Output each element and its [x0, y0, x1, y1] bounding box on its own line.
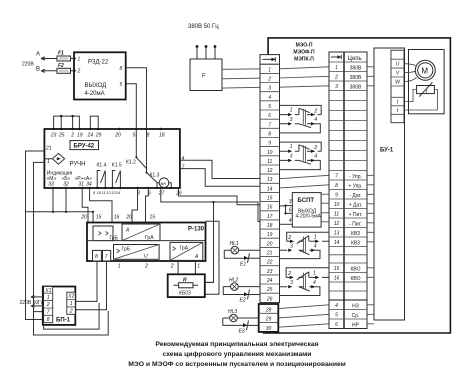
svg-text:КВО: КВО [351, 276, 361, 282]
svg-text:ГрА: ГрА [145, 235, 154, 241]
svg-text:2: 2 [313, 145, 317, 151]
svg-text:30: 30 [266, 326, 272, 332]
svg-text:17: 17 [267, 214, 273, 220]
svg-text:23: 23 [50, 133, 57, 139]
svg-text:1: 1 [268, 67, 271, 73]
svg-text:22: 22 [266, 260, 273, 266]
wire RZD pin8 to BRU pin8 [126, 68, 147, 129]
svg-text:РЗД-22: РЗД-22 [88, 60, 109, 66]
svg-text:1: 1 [78, 56, 81, 62]
svg-text:A: A [36, 52, 40, 58]
svg-text:2: 2 [70, 133, 74, 139]
fuse F2 [57, 63, 74, 73]
svg-text:19: 19 [77, 133, 83, 139]
BRU-42 name plate [70, 141, 99, 150]
svg-text:К1.5: К1.5 [112, 163, 122, 169]
svg-text:10: 10 [334, 202, 340, 208]
svg-text:380В: 380В [350, 84, 362, 90]
fuse block F [190, 59, 222, 91]
svg-text:33: 33 [48, 181, 54, 187]
circuit table row lines [329, 62, 367, 319]
arrester E2 [223, 287, 260, 304]
svg-text:29: 29 [265, 317, 272, 323]
svg-text:Рекомендуемая принципиальная э: Рекомендуемая принципиальная электрическ… [155, 341, 318, 348]
wire BRU pin21 common bus down-left [26, 151, 94, 320]
R-130 input switch box GrB [93, 226, 119, 242]
arrester E1 [224, 250, 260, 267]
wire strip row2 to circuit row2 [280, 76, 330, 78]
limit switch group SQ1 terminals 5-8 [280, 105, 322, 132]
wire F to strip row1 [222, 68, 260, 70]
wire F to strip row3 [222, 86, 260, 89]
svg-text:- Упр.: - Упр. [349, 174, 362, 180]
circuit table signal names [348, 65, 362, 328]
R-130 lower-left terminal 7 [103, 250, 111, 261]
wire BSPT to circuit row9 Dat [321, 193, 329, 195]
svg-text:МЭО-П: МЭО-П [296, 43, 313, 49]
svg-text:4: 4 [182, 156, 185, 162]
svg-text:4-20/0-5мА: 4-20/0-5мА [296, 213, 322, 219]
wire BRU pin33 down to bus [52, 188, 54, 212]
motor compartment box [409, 50, 445, 114]
svg-text:4: 4 [268, 95, 271, 101]
svg-text:14: 14 [116, 190, 121, 195]
svg-text:2: 2 [334, 75, 338, 81]
R-130 lower-left terminal 8 [93, 250, 102, 261]
wire R-130 pin2 to KB03 [177, 261, 179, 274]
svg-text:БП-1: БП-1 [56, 318, 71, 324]
svg-text:4: 4 [314, 153, 317, 159]
svg-text:Ср.: Ср. [352, 313, 360, 319]
svg-text:КБ03: КБ03 [179, 291, 191, 297]
svg-text:12: 12 [334, 221, 340, 227]
svg-text:26: 26 [266, 296, 273, 302]
circuit table header arrow [331, 55, 362, 62]
BP-1 connector X2 [67, 292, 76, 314]
svg-text:9: 9 [335, 193, 338, 199]
power supply BP-1 (БП-1) [43, 287, 76, 325]
svg-text:4: 4 [314, 117, 317, 123]
actuator enclosure MEO [264, 38, 451, 333]
wire BSPT to circuit row11 Pit [321, 212, 329, 214]
svg-text:24: 24 [266, 278, 273, 284]
wire strip row13 to circuit row7 Upr [280, 175, 330, 178]
wire BRU pin6 to R-130 pin15b [146, 188, 149, 223]
actuator terminal strip outline [260, 55, 280, 303]
wire BP bottom loop to X2-1 column [44, 303, 100, 329]
wire BSPT pins 3,6 common to strip row16 [280, 206, 293, 214]
svg-text:25: 25 [266, 287, 273, 293]
fuse F1 [57, 51, 74, 62]
R-130 GrA A output block [170, 242, 203, 260]
wire R-130 term7 to BP X2-2 [75, 261, 106, 310]
BRU bottom-left pin labels 33 32 31 34 [48, 181, 92, 187]
svg-text:1: 1 [313, 270, 316, 276]
indication labels М Б Р А [47, 176, 93, 182]
svg-text:20: 20 [266, 241, 273, 247]
svg-text:К1.2: К1.2 [126, 160, 136, 166]
svg-text:2: 2 [77, 69, 81, 75]
relay contact K1.4 [97, 163, 107, 188]
relay contact K1.5 [112, 163, 122, 188]
svg-text:5: 5 [335, 313, 338, 319]
svg-text:34: 34 [86, 181, 92, 187]
wire BSPT to circuit row10 Dat [321, 202, 329, 204]
limit switch group SQ2 terminals 9-12 [280, 142, 322, 170]
wire strip row1 to circuit row1 [280, 67, 330, 69]
svg-text:4-20мА: 4-20мА [85, 91, 105, 97]
BRU bottom pin dots [52, 187, 150, 189]
strip header arrow symbol [260, 57, 280, 64]
svg-text:БСПТ: БСПТ [298, 198, 315, 204]
svg-text:380В: 380В [350, 65, 362, 71]
svg-text:А: А [125, 228, 130, 234]
limit switch KVO contacts block [280, 268, 330, 296]
jumper pins 24-29 [90, 116, 98, 129]
wire strip row14 to circuit row8 Upr [280, 185, 330, 188]
svg-text:1: 1 [118, 264, 121, 270]
svg-text:5: 5 [133, 133, 136, 139]
svg-text:РУЧН: РУЧН [70, 162, 86, 168]
svg-text:15: 15 [267, 196, 273, 202]
wire BRU pin27 to strip row17 + branch to KB03 [161, 188, 260, 282]
svg-text:15: 15 [334, 266, 340, 272]
svg-text:+ Дат.: + Дат. [349, 202, 363, 208]
svg-text:31: 31 [79, 181, 85, 187]
svg-text:4: 4 [289, 218, 292, 224]
svg-text:МЭПК-П: МЭПК-П [294, 57, 314, 63]
svg-text:Х2: Х2 [67, 294, 74, 300]
svg-text:1: 1 [314, 234, 317, 240]
svg-text:МЭО и МЭОФ со встроенным пуска: МЭО и МЭОФ со встроенным пускателем и по… [128, 361, 346, 368]
svg-text:БУ-1: БУ-1 [380, 148, 394, 154]
svg-text:- Пит.: - Пит. [349, 221, 362, 227]
svg-text:19: 19 [267, 232, 273, 238]
svg-text:11: 11 [102, 190, 106, 195]
svg-text:23: 23 [266, 269, 273, 275]
svg-text:4: 4 [335, 303, 338, 309]
svg-text:2: 2 [267, 77, 271, 83]
svg-text:5: 5 [268, 104, 271, 110]
strip lower connector block 28-30 [259, 304, 279, 332]
R-130 top pin labels 20 15 16 20 15 [80, 215, 155, 221]
lamp HL3 [223, 309, 260, 322]
svg-text:1: 1 [70, 301, 73, 307]
svg-text:16: 16 [267, 205, 273, 211]
svg-text:14: 14 [334, 240, 340, 246]
svg-text:4: 4 [314, 244, 317, 250]
wire BRU pin4 to strip row13 [180, 160, 260, 178]
svg-text:16: 16 [334, 276, 340, 282]
svg-text:10: 10 [267, 150, 273, 156]
starter unit BU-1 (БУ-1) [374, 48, 405, 320]
relay contact K1.2 [126, 129, 147, 169]
BRU bottom pin labels 9-14 3 6 27 26 [93, 190, 182, 196]
svg-text:А: А [194, 254, 199, 260]
thermistor t [417, 82, 435, 96]
svg-text:21: 21 [266, 251, 273, 257]
node A 220V input phase A [36, 52, 57, 61]
svg-text:12: 12 [267, 168, 273, 174]
svg-text:13: 13 [334, 231, 340, 237]
svg-text:E1: E1 [240, 261, 246, 267]
controller R-130 (Р-130) [87, 223, 206, 262]
svg-text:- Дат.: - Дат. [349, 193, 361, 199]
wire 220V to X1-1 [31, 296, 44, 299]
svg-text:К1.3: К1.3 [150, 173, 160, 179]
wire BRU pin7 to strip row14 [180, 169, 260, 187]
svg-text:220В: 220В [22, 62, 34, 68]
svg-text:ВЫХОД: ВЫХОД [85, 83, 107, 89]
R-130 GrB U converter [114, 245, 160, 260]
svg-text:32: 32 [63, 181, 69, 187]
BU-1 output terminal column U V W t t [391, 50, 404, 123]
svg-text:Х1: Х1 [44, 288, 51, 294]
svg-text:+ Упр.: + Упр. [348, 183, 362, 189]
wire thermistor left to terminal t1 [404, 90, 417, 102]
svg-text:3: 3 [290, 280, 293, 286]
position transmitter BSPT (БСПТ) [289, 193, 322, 228]
wires circuit table to BU-1 [367, 67, 374, 324]
wire strip row3 to circuit row3 [280, 86, 330, 87]
svg-text:2: 2 [287, 271, 291, 277]
svg-text:1: 1 [335, 65, 338, 71]
svg-text:8: 8 [95, 254, 98, 260]
svg-text:НЗ: НЗ [352, 303, 359, 309]
svg-text:7: 7 [182, 164, 185, 170]
wire strip row30 to circuit row6 [278, 324, 329, 327]
svg-text:Цепь: Цепь [348, 56, 362, 62]
svg-text:3: 3 [289, 199, 292, 205]
wire RZD pin5 to BRU pin5 [126, 84, 137, 129]
BRU top pin dots [52, 128, 162, 130]
svg-text:13: 13 [267, 177, 273, 183]
svg-text:+ Пит.: + Пит. [349, 212, 363, 218]
wire R-130 pin1 to KB03 [194, 261, 196, 274]
svg-text:6: 6 [289, 207, 292, 213]
svg-text:B: B [36, 67, 40, 73]
svg-text:E2: E2 [240, 298, 246, 304]
manual control diamond symbol [44, 153, 64, 164]
svg-text:БРУ-42: БРУ-42 [74, 143, 95, 149]
wire BRU pin31 to R-130 pin20 [82, 188, 88, 223]
svg-text:20: 20 [80, 215, 87, 221]
svg-text:9: 9 [268, 141, 271, 147]
lamp HL2 [223, 278, 260, 291]
svg-text:8: 8 [147, 133, 150, 139]
svg-text:НР: НР [352, 322, 360, 328]
BRU top pin labels 23 25 2 19 24 29 20 5 8 18 [50, 133, 165, 139]
svg-text:2: 2 [46, 302, 50, 308]
svg-text:8: 8 [268, 131, 271, 137]
svg-text:3: 3 [290, 153, 293, 159]
svg-text:8: 8 [47, 317, 50, 323]
svg-text:2: 2 [69, 308, 73, 314]
svg-text:14: 14 [267, 186, 273, 192]
lamp HL1 [224, 241, 260, 254]
R-130 amplifier A / GrA [122, 224, 160, 241]
milliammeter mA [156, 178, 172, 189]
svg-text:2: 2 [313, 108, 317, 114]
wire W to motor [404, 78, 417, 82]
strip terminal numbers 1-26 [266, 67, 273, 302]
BP-1 connector X1 [44, 287, 53, 324]
svg-text:15: 15 [96, 215, 102, 221]
wire V to motor [404, 71, 415, 72]
svg-text:ГрБ: ГрБ [122, 246, 131, 252]
svg-text:18: 18 [159, 133, 165, 139]
circuit table (Цепь) outline [329, 52, 367, 329]
svg-text:К1.4: К1.4 [97, 163, 107, 169]
svg-text:2: 2 [170, 264, 174, 270]
jumper bus pins 23-25-2-19 [54, 115, 80, 129]
svg-text:ГрБ: ГрБ [110, 236, 119, 242]
svg-text:4: 4 [313, 280, 316, 286]
svg-text:7: 7 [335, 174, 338, 180]
motor M [415, 60, 435, 80]
svg-text:7: 7 [47, 310, 50, 316]
svg-text:3: 3 [268, 86, 271, 92]
svg-text:16: 16 [114, 215, 120, 221]
wire BSPT pin 4 to strip row18 [280, 223, 293, 225]
svg-text:U: U [396, 62, 400, 68]
svg-text:7: 7 [268, 122, 271, 128]
strip row dividers [260, 64, 280, 293]
limit switch KVZ contacts block [280, 232, 330, 258]
svg-text:1: 1 [197, 264, 200, 270]
svg-text:E3: E3 [239, 329, 245, 335]
block RZD-22 (РЗД-22) [74, 52, 126, 99]
svg-text:КВЗ: КВЗ [351, 240, 360, 246]
svg-text:1: 1 [47, 295, 50, 301]
svg-text:380В: 380В [350, 75, 362, 81]
svg-text:2: 2 [144, 264, 148, 270]
svg-text:20: 20 [125, 215, 132, 221]
svg-text:6: 6 [335, 322, 338, 328]
wire R-130 term8 to BP X2-1 [75, 261, 97, 301]
label MEO-P MEOF-P MEPK-P [293, 43, 315, 63]
svg-text:МЭОФ-П: МЭОФ-П [293, 50, 315, 56]
svg-text:380В 50 Гц: 380В 50 Гц [188, 24, 219, 30]
block BRU-42 (БРУ-42) [44, 129, 180, 188]
svg-text:2: 2 [287, 235, 291, 241]
wire strip row28 to circuit row4 [278, 305, 329, 309]
svg-text:1: 1 [290, 144, 293, 150]
circuit table terminal numbers [334, 65, 340, 328]
svg-text:ГрА: ГрА [180, 245, 189, 251]
svg-text:3: 3 [290, 244, 293, 250]
resistor block KB03 (КБ03) [168, 274, 205, 297]
svg-text:8: 8 [120, 66, 123, 72]
svg-text:M: M [421, 66, 428, 75]
svg-text:21: 21 [45, 146, 52, 152]
svg-text:6: 6 [268, 113, 271, 119]
svg-text:3: 3 [335, 84, 338, 90]
svg-text:20: 20 [114, 133, 121, 139]
wire BRU pin34 to R-130 pin16 [90, 188, 112, 223]
svg-text:F: F [202, 74, 206, 80]
svg-text:29: 29 [95, 133, 102, 139]
R-130 bottom pin labels 1 2 2 1 [118, 264, 201, 270]
svg-text:15: 15 [150, 215, 156, 221]
svg-text:5: 5 [120, 82, 123, 88]
svg-text:Р-130: Р-130 [188, 227, 205, 233]
svg-text:1: 1 [290, 108, 293, 114]
wire KB03 right upper to strip row18 area [205, 281, 214, 283]
wire U to motor [404, 64, 416, 66]
wire BRU pin26 to strip row16 [179, 188, 261, 205]
svg-text:11: 11 [267, 159, 272, 165]
svg-text:3: 3 [290, 117, 293, 123]
svg-text:18: 18 [267, 223, 273, 229]
wire F to strip row2 [222, 77, 260, 80]
svg-text:схема цифрового управления мех: схема цифрового управления механизмами [163, 351, 312, 358]
wire BSPT to circuit row12 Pit [321, 221, 329, 223]
wire BRU pin32 down to bus [65, 188, 67, 212]
node B 220V input phase B [36, 67, 57, 73]
strip top lead into enclosure [263, 332, 265, 333]
arrester E3 [223, 318, 260, 335]
svg-text:1: 1 [47, 159, 50, 165]
svg-text:24: 24 [87, 133, 94, 139]
svg-text:11: 11 [334, 212, 339, 218]
supply arrows 3-phase [196, 45, 217, 59]
svg-text:КВЗ: КВЗ [351, 231, 360, 237]
svg-text:8: 8 [335, 183, 338, 189]
svg-text:25: 25 [58, 133, 65, 139]
wire BRU pin3 to R-130 pin20b [132, 188, 138, 223]
svg-text:7: 7 [105, 254, 108, 260]
svg-text:мА: мА [161, 181, 167, 186]
svg-text:U: U [144, 254, 148, 260]
relay contact K1.3 [146, 129, 160, 183]
wire thermistor right to terminal t2 [404, 90, 437, 111]
svg-text:КВО: КВО [351, 266, 361, 272]
svg-text:28: 28 [265, 307, 272, 313]
wire R-130 top corner to KB03 right lower [205, 221, 219, 294]
wire strip row29 to circuit row5 [278, 314, 329, 318]
wire 220V to X1-2 [31, 305, 44, 308]
wire BRU pin1 to BP X1-7 [34, 162, 109, 335]
